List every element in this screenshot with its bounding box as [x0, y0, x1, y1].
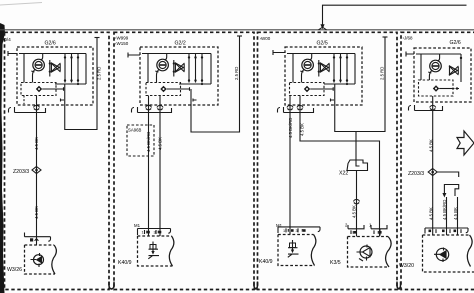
connector claw on wire — [354, 199, 360, 204]
svg-text:G2/5: G2/5 — [317, 41, 328, 47]
terminal rail W3/20 — [425, 228, 468, 234]
frame column 4 — [401, 32, 474, 289]
stub to X22 — [355, 132, 357, 162]
ground point box W3/26 — [52, 245, 57, 274]
node dot — [49, 71, 51, 73]
terminal rail W3/26 — [25, 233, 51, 242]
off-page arrow — [457, 131, 474, 155]
wire 2.5 RD feed — [191, 36, 240, 132]
wire stub left to regulator — [147, 54, 149, 83]
rectifier bottom bus — [179, 83, 211, 85]
frame column 2 — [114, 32, 254, 289]
svg-text:›W999: ›W999 — [115, 36, 129, 41]
pin terminal left of G2/6 — [8, 51, 17, 56]
ground symbol — [357, 245, 373, 262]
rectifier diode leg 1 — [333, 54, 335, 83]
wire 2.5 RD feed — [65, 38, 97, 130]
wire exit DF — [148, 96, 150, 106]
fuse unit K40/9 box — [311, 235, 316, 266]
terminal rail K40/9 — [138, 229, 171, 236]
svg-text:4.5 BK/RD: 4.5 BK/RD — [442, 200, 447, 220]
rectifier bottom bus — [55, 83, 86, 85]
ground point box W3/20 — [467, 235, 472, 267]
svg-text:G2/6: G2/6 — [450, 40, 461, 46]
svg-text:SA96B: SA96B — [128, 128, 142, 133]
wire 2.5 RD feed — [335, 37, 385, 132]
pin terminal left of G2/2 — [128, 53, 140, 58]
pin stubs under regulator — [23, 96, 25, 105]
pin mark B+ — [193, 99, 197, 102]
ground symbol — [31, 253, 44, 267]
page border top — [0, 29, 474, 31]
pin marks — [374, 230, 378, 234]
diode cathode bar — [328, 64, 330, 71]
diode D+ — [175, 63, 183, 72]
svg-text:4.5 BK: 4.5 BK — [34, 137, 39, 150]
svg-text:3: 3 — [154, 231, 156, 235]
wire bus top inside G2/5 — [287, 53, 355, 55]
node dot — [173, 71, 175, 73]
pin mark B+ — [61, 99, 65, 102]
rectifier diode leg 1 — [64, 54, 66, 83]
separator feet 1 — [109, 282, 114, 290]
frame column 3 — [258, 32, 398, 289]
alternator G2/6 box — [17, 47, 93, 105]
connector Z203/3 — [428, 169, 437, 176]
connector claw at exit — [157, 105, 163, 110]
rectifier diode leg 2 — [71, 54, 73, 83]
svg-text:X22: X22 — [339, 171, 348, 177]
diode lead vertical — [460, 54, 462, 82]
pin terminal left of G2/5 — [273, 50, 285, 55]
connector bracket under G2/6 — [9, 107, 46, 113]
off-page feed line top — [323, 5, 467, 25]
wire stub left to regulator — [23, 54, 25, 83]
svg-text:4.5 BK: 4.5 BK — [453, 207, 458, 220]
svg-text:W3/20: W3/20 — [399, 263, 414, 269]
feed terminal tick top — [95, 37, 100, 39]
wire stub left to regulator — [292, 54, 294, 83]
wire bus top inside G2/6 — [19, 53, 86, 55]
diode D+ — [450, 66, 458, 75]
wire stub circle to bus — [41, 54, 43, 61]
arrow down into frame 3 — [320, 24, 324, 29]
crossing leads — [320, 63, 330, 72]
crossing leads — [175, 63, 185, 72]
wire into K3/5 — [379, 229, 381, 236]
wire stub circle to bus — [310, 54, 312, 61]
connector X22 — [347, 160, 368, 171]
branch from Z203/3 — [437, 172, 459, 177]
connector bracket under G2/5 — [278, 107, 314, 113]
wire bus top — [416, 53, 461, 55]
rotor winding symbol — [430, 60, 442, 72]
feed terminal tick top — [237, 35, 242, 37]
node dot — [201, 83, 203, 85]
node dots rectifier bottom — [64, 79, 79, 81]
wire down to Z203/3 — [432, 102, 434, 235]
pin marks — [429, 230, 432, 233]
wire branch 2 down — [457, 197, 459, 235]
svg-text:Z203/3: Z203/3 — [408, 171, 424, 177]
rotor winding symbol — [157, 59, 169, 71]
wire 61 down — [159, 105, 161, 236]
svg-text:4.5 BK: 4.5 BK — [158, 137, 163, 150]
terminal rail K3/5 left — [348, 225, 364, 229]
rectifier diode leg 2 — [195, 54, 197, 83]
svg-text:G2/6: G2/6 — [45, 41, 56, 47]
regulator arrow symbol — [304, 86, 333, 92]
wire 61 branch — [300, 105, 380, 237]
rectifier diode leg 3 — [77, 54, 79, 83]
regulator arrow symbol — [160, 86, 189, 92]
alternator G2/6 box right — [414, 48, 471, 102]
pin square — [30, 238, 33, 241]
ground symbol — [434, 248, 449, 263]
svg-text:4.5 BK: 4.5 BK — [300, 123, 305, 136]
connector bracket under box — [409, 105, 443, 111]
svg-text:G2/2: G2/2 — [175, 41, 186, 47]
wire exit DF — [36, 96, 38, 106]
node dots rectifier bottom — [188, 79, 203, 81]
connector Z203/3 — [32, 167, 41, 174]
wire feed riser into box — [190, 89, 192, 105]
B+ leg right — [210, 54, 212, 85]
connector claw at exit — [430, 105, 436, 110]
svg-text:K40/9: K40/9 — [259, 259, 273, 265]
pin mark B+ — [331, 99, 335, 102]
alternator G2/2 box — [140, 47, 218, 105]
svg-text:2.5 RD: 2.5 RD — [97, 67, 102, 80]
wire G2/6 to ground — [36, 105, 38, 237]
diode lead vertical — [49, 60, 51, 77]
wire stub circle to bus — [165, 54, 167, 61]
svg-text:‹W150: ‹W150 — [115, 41, 129, 46]
connector claw at exit — [297, 105, 303, 110]
node dot — [346, 83, 348, 85]
svg-text:3: 3 — [296, 229, 298, 233]
regulator arrow symbol — [433, 85, 455, 91]
connector claw at exit — [146, 105, 152, 110]
svg-text:4.5 BK: 4.5 BK — [429, 139, 434, 152]
svg-text:4.5 BK/RD: 4.5 BK/RD — [146, 132, 151, 152]
brush lead from rotor — [428, 71, 432, 81]
alternator G2/5 box — [285, 47, 362, 105]
node dot — [318, 62, 320, 64]
branch bracket with arrow — [444, 185, 458, 197]
terminal rail K40/9 — [278, 227, 320, 233]
fuse symbol — [288, 240, 299, 257]
wire X22 down — [356, 171, 358, 237]
rectifier bottom bus — [324, 83, 355, 85]
svg-text:4.5 BK: 4.5 BK — [429, 207, 434, 220]
svg-text:2.5 RD: 2.5 RD — [380, 67, 385, 80]
svg-text:›0/4: ›0/4 — [3, 37, 12, 43]
svg-text:W3/26: W3/26 — [7, 267, 22, 273]
node dot — [77, 83, 79, 85]
rotor winding symbol — [302, 59, 314, 71]
scan edge artifact left — [0, 23, 5, 293]
regulator arrow symbol — [36, 86, 64, 92]
rectifier diode leg 2 — [340, 54, 342, 83]
wire exit 61 — [159, 96, 161, 106]
pin mark regulator output — [456, 87, 460, 90]
crossing leads — [51, 63, 61, 72]
diode D+ — [320, 63, 328, 72]
connector bracket under G2/2 — [132, 107, 172, 113]
coupler box SA968 — [127, 125, 154, 156]
pin marks — [351, 230, 353, 234]
chevron on border — [319, 27, 327, 30]
wire bus top inside G2/2 — [142, 53, 211, 55]
rectifier diode leg 1 — [188, 54, 190, 83]
node dot — [173, 62, 175, 64]
wire DF down — [289, 105, 291, 235]
node dot — [318, 71, 320, 73]
svg-text:›J/68: ›J/68 — [403, 36, 414, 41]
node dots rectifier top — [64, 56, 79, 58]
wire exit — [432, 96, 434, 102]
regulator sub-box — [146, 83, 181, 96]
node dots rectifier bottom — [333, 79, 348, 81]
svg-text:M1: M1 — [134, 223, 141, 228]
connector claw at exit — [287, 105, 293, 110]
separator feet 3 — [397, 282, 401, 290]
svg-text:4.5 BK/RD: 4.5 BK/RD — [288, 118, 293, 138]
B+ leg right — [85, 54, 87, 85]
wire into W3/26 — [36, 237, 38, 245]
diode cathode bar — [183, 64, 185, 71]
wire exit 61 — [299, 96, 301, 106]
svg-text:Z203/3: Z203/3 — [13, 169, 29, 175]
crossing leads — [449, 66, 459, 75]
frame column 1 — [5, 32, 110, 289]
diode cathode bar — [59, 64, 61, 71]
regulator sub-box — [21, 83, 56, 96]
svg-text:1: 1 — [142, 231, 144, 235]
svg-text:K40/9: K40/9 — [118, 260, 132, 266]
fuse symbol — [148, 242, 159, 259]
svg-text:1: 1 — [283, 229, 285, 233]
svg-text:4.5 BK: 4.5 BK — [352, 205, 357, 218]
scan smudge top left — [0, 3, 42, 6]
regulator sub-box — [290, 83, 325, 96]
diode cathode bar — [457, 67, 459, 74]
wire exit DF — [289, 96, 291, 106]
brush lead from rotor — [155, 70, 159, 83]
pin terminal left — [406, 52, 414, 57]
regulator sub-box — [419, 80, 454, 96]
brush lead from rotor — [31, 70, 35, 83]
fuse unit K40/9 box — [169, 236, 174, 266]
node dot — [460, 57, 462, 59]
rectifier diode leg 3 — [201, 54, 203, 83]
svg-text:K3/5: K3/5 — [330, 260, 341, 266]
svg-text:›W00: ›W00 — [260, 36, 271, 41]
B+ leg right — [354, 54, 356, 85]
terminal rail K3/5 right — [371, 225, 387, 229]
connector claw at exit — [34, 105, 40, 110]
feed terminal tick top — [383, 36, 388, 38]
node dots rectifier top — [188, 56, 203, 58]
wire DF down — [148, 105, 150, 236]
node dot — [49, 62, 51, 64]
rectifier diode leg 3 — [346, 54, 348, 83]
wire stub left to regulator — [420, 54, 422, 80]
consumer box K3/5 — [386, 237, 392, 268]
diode lead vertical — [173, 60, 175, 77]
node dots rectifier top — [333, 56, 348, 58]
rotor winding symbol — [33, 59, 45, 71]
svg-text:2.5 RD: 2.5 RD — [234, 67, 239, 80]
separator feet 2 — [254, 282, 258, 290]
brush lead from rotor — [300, 70, 304, 83]
arrowhead down — [442, 193, 446, 198]
wire branch 1 down — [446, 197, 448, 235]
diode D+ — [51, 63, 59, 72]
diode lead vertical — [318, 60, 320, 77]
svg-text:4.5 BK: 4.5 BK — [34, 206, 39, 219]
pin chevron — [35, 239, 39, 241]
wire stub circle to bus — [437, 54, 439, 61]
